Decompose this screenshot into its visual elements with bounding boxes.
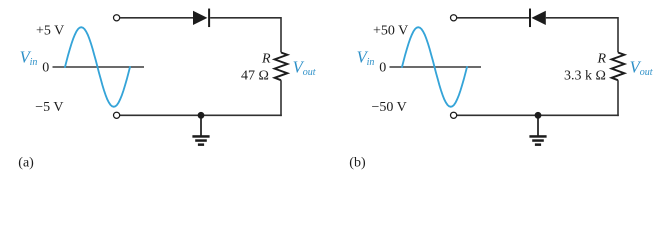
ground bar 3 xyxy=(198,143,204,146)
svg-text:+5 V: +5 V xyxy=(36,24,64,39)
diode D1 triangle xyxy=(193,11,207,25)
wire corner down to resistor xyxy=(280,17,282,52)
wire resistor to bottom xyxy=(280,80,282,116)
diode D1 cathode bar xyxy=(208,9,210,28)
svg-text:out: out xyxy=(640,67,653,78)
svg-text:out: out xyxy=(303,67,316,78)
svg-text:R: R xyxy=(597,52,607,67)
wire corner down to resistor xyxy=(617,17,619,52)
top terminal xyxy=(114,15,120,21)
svg-text:(a): (a) xyxy=(18,156,34,171)
svg-text:R: R xyxy=(261,52,271,67)
ground stem xyxy=(537,115,539,136)
top terminal xyxy=(451,15,457,21)
svg-text:(b): (b) xyxy=(349,156,366,171)
Vin source sine wave xyxy=(402,27,467,107)
svg-text:47 Ω: 47 Ω xyxy=(241,69,269,84)
svg-text:+50 V: +50 V xyxy=(373,24,408,39)
diode D2 cathode bar xyxy=(529,9,531,28)
wire resistor to bottom xyxy=(617,80,619,116)
junction dot xyxy=(198,112,205,119)
bottom terminal xyxy=(114,112,120,118)
ground bar 1 xyxy=(529,135,546,138)
resistor R zigzag xyxy=(612,53,625,81)
ground bar 2 xyxy=(195,139,207,142)
wire terminal to diode xyxy=(120,17,193,19)
ground stem xyxy=(200,115,202,136)
svg-text:0: 0 xyxy=(379,60,386,75)
bottom wire xyxy=(120,114,282,116)
ground bar 2 xyxy=(532,139,544,142)
svg-text:0: 0 xyxy=(42,60,49,75)
diode D2 triangle xyxy=(531,11,545,25)
wire diode to corner xyxy=(210,17,281,19)
junction dot xyxy=(535,112,542,119)
svg-text:3.3 k Ω: 3.3 k Ω xyxy=(564,69,606,84)
svg-text:−5 V: −5 V xyxy=(35,100,63,115)
resistor R zigzag xyxy=(275,53,288,81)
svg-text:in: in xyxy=(30,57,38,68)
wire diode to corner xyxy=(546,17,618,19)
ground bar 3 xyxy=(535,143,541,146)
bottom terminal xyxy=(451,112,457,118)
Vin source axis xyxy=(53,66,145,68)
Vin source sine wave xyxy=(65,27,130,107)
bottom wire xyxy=(457,114,619,116)
svg-text:in: in xyxy=(367,57,375,68)
wire terminal to diode xyxy=(457,17,530,19)
ground bar 1 xyxy=(192,135,209,138)
Vin source axis xyxy=(390,66,482,68)
svg-text:−50 V: −50 V xyxy=(372,100,407,115)
